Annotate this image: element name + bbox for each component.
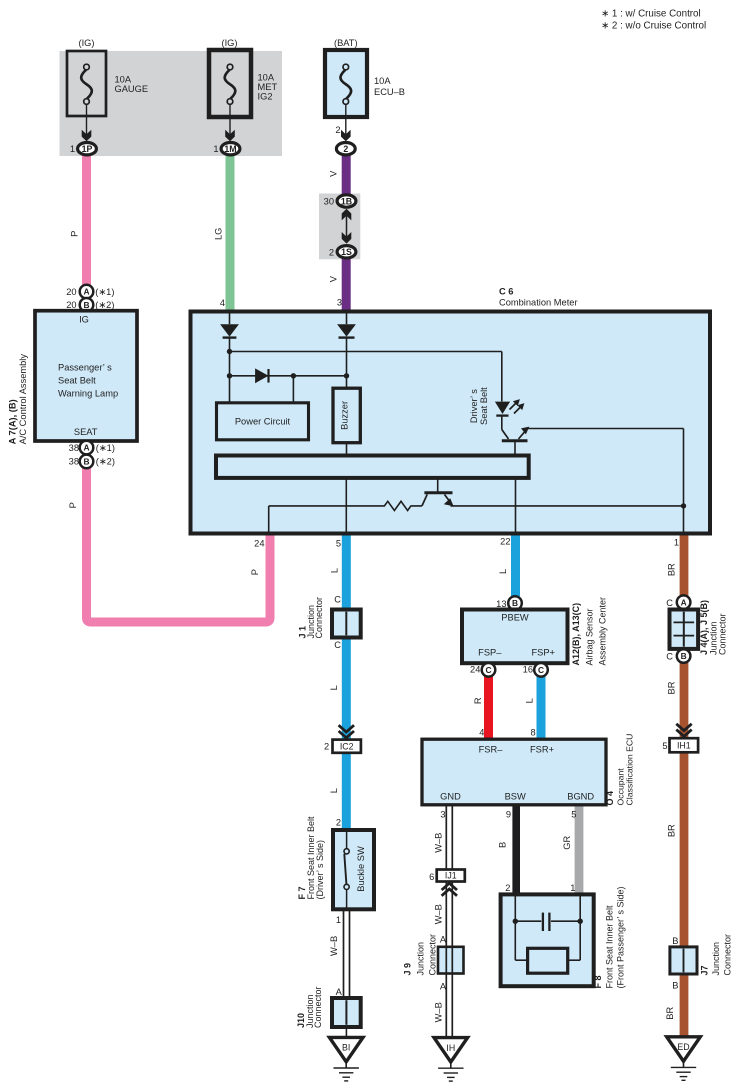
svg-text:5: 5 — [662, 741, 667, 751]
svg-text:PBEW: PBEW — [501, 613, 529, 623]
svg-text:4: 4 — [220, 298, 225, 308]
svg-text:(IG): (IG) — [221, 38, 237, 48]
svg-text:IG: IG — [79, 315, 89, 325]
svg-text:ED: ED — [677, 1042, 689, 1052]
svg-text:Combination Meter: Combination Meter — [499, 297, 578, 307]
svg-text:1: 1 — [336, 915, 341, 925]
svg-text:24: 24 — [470, 665, 480, 675]
svg-text:Junction: Junction — [711, 942, 721, 976]
svg-text:Seat Belt: Seat Belt — [479, 387, 489, 425]
svg-text:Junction: Junction — [415, 942, 425, 976]
svg-text:C: C — [334, 595, 341, 605]
svg-text:Power Circuit: Power Circuit — [235, 417, 291, 427]
svg-text:IJ1: IJ1 — [445, 871, 457, 881]
svg-text:C: C — [485, 665, 491, 675]
svg-text:Connector: Connector — [314, 597, 324, 639]
svg-text:(Driver’ s Side): (Driver’ s Side) — [315, 840, 325, 900]
svg-text:FSP–: FSP– — [478, 648, 502, 658]
svg-text:Connector: Connector — [718, 613, 728, 655]
svg-text:(∗1): (∗1) — [95, 287, 114, 297]
svg-text:W–B: W–B — [329, 936, 339, 956]
svg-text:L: L — [525, 698, 535, 703]
svg-text:BR: BR — [666, 563, 676, 576]
svg-text:1: 1 — [213, 144, 218, 154]
svg-text:A: A — [681, 597, 687, 607]
svg-text:A: A — [336, 987, 343, 997]
svg-text:1P: 1P — [82, 144, 93, 154]
svg-text:FSR–: FSR– — [479, 745, 504, 755]
svg-text:C: C — [334, 640, 341, 650]
svg-text:IG2: IG2 — [258, 92, 273, 102]
svg-text:B: B — [672, 980, 678, 990]
svg-text:3: 3 — [440, 810, 445, 820]
svg-text:2: 2 — [343, 144, 348, 154]
svg-text:L: L — [329, 788, 339, 793]
svg-text:MET: MET — [258, 82, 278, 92]
svg-text:10A: 10A — [374, 76, 391, 86]
svg-text:(∗2): (∗2) — [96, 457, 115, 467]
svg-text:24: 24 — [254, 538, 264, 548]
svg-text:5: 5 — [571, 809, 576, 819]
svg-text:A: A — [440, 935, 447, 945]
svg-text:GR: GR — [562, 836, 572, 850]
svg-text:L: L — [498, 569, 508, 574]
svg-text:FSR+: FSR+ — [530, 745, 554, 755]
svg-text:A: A — [83, 287, 89, 297]
svg-text:Driver’ s: Driver’ s — [469, 389, 479, 423]
svg-text:4: 4 — [479, 728, 484, 738]
svg-text:6: 6 — [429, 872, 434, 882]
svg-text:10A: 10A — [258, 73, 275, 83]
svg-text:Connector: Connector — [427, 934, 437, 976]
svg-text:B: B — [83, 457, 89, 467]
svg-text:V: V — [328, 170, 338, 177]
svg-text:B: B — [672, 936, 678, 946]
svg-text:W–B: W–B — [433, 1002, 443, 1022]
svg-text:L: L — [329, 685, 339, 690]
svg-text:2: 2 — [336, 818, 341, 828]
svg-text:O 4: O 4 — [605, 791, 615, 806]
svg-text:Connector: Connector — [723, 934, 733, 976]
svg-text:Buckle SW: Buckle SW — [356, 846, 366, 892]
svg-text:B: B — [497, 842, 507, 848]
svg-text:2: 2 — [329, 247, 334, 257]
svg-text:∗ 1 : w/ Cruise Control: ∗ 1 : w/ Cruise Control — [601, 9, 701, 20]
svg-text:P: P — [70, 231, 80, 237]
svg-text:22: 22 — [500, 537, 510, 547]
svg-text:BR: BR — [666, 824, 676, 837]
svg-text:P: P — [68, 502, 78, 508]
svg-text:L: L — [329, 568, 339, 573]
svg-text:2: 2 — [335, 125, 340, 135]
svg-text:IH: IH — [446, 1043, 455, 1053]
svg-text:P: P — [250, 569, 260, 575]
svg-text:3: 3 — [337, 298, 342, 308]
svg-text:BGND: BGND — [567, 792, 594, 802]
svg-text:Airbag Sensor: Airbag Sensor — [584, 608, 594, 665]
svg-text:BSW: BSW — [505, 792, 526, 802]
svg-text:C: C — [666, 652, 673, 662]
svg-text:W–B: W–B — [433, 904, 443, 924]
svg-text:ECU–B: ECU–B — [374, 87, 405, 97]
svg-text:(∗2): (∗2) — [95, 300, 114, 310]
svg-text:J7: J7 — [700, 965, 710, 975]
svg-text:A12(B), A13(C): A12(B), A13(C) — [571, 603, 581, 666]
svg-text:20: 20 — [66, 300, 76, 310]
svg-text:16: 16 — [523, 665, 533, 675]
svg-text:Assembly Center: Assembly Center — [597, 597, 607, 666]
svg-text:38: 38 — [69, 457, 79, 467]
svg-text:BI: BI — [342, 1043, 350, 1053]
svg-text:(BAT): (BAT) — [334, 38, 358, 48]
svg-text:2: 2 — [505, 883, 510, 893]
svg-text:GAUGE: GAUGE — [115, 84, 149, 94]
svg-text:SEAT: SEAT — [74, 427, 98, 437]
svg-text:IC2: IC2 — [340, 742, 354, 752]
svg-text:Connector: Connector — [313, 986, 323, 1028]
svg-text:(IG): (IG) — [78, 38, 94, 48]
svg-text:1: 1 — [570, 883, 575, 893]
svg-text:F 8: F 8 — [593, 975, 603, 988]
svg-text:A 7(A), (B): A 7(A), (B) — [7, 399, 17, 444]
svg-text:W–B: W–B — [433, 833, 443, 853]
svg-text:BR: BR — [665, 1007, 675, 1020]
svg-text:V: V — [328, 275, 338, 282]
svg-text:B: B — [83, 300, 89, 310]
svg-text:R: R — [473, 697, 483, 704]
svg-text:2: 2 — [324, 741, 329, 751]
svg-text:Front Seat Inner Belt: Front Seat Inner Belt — [605, 905, 615, 989]
svg-text:20: 20 — [66, 287, 76, 297]
svg-text:B: B — [681, 651, 687, 661]
svg-text:Warning Lamp: Warning Lamp — [58, 389, 118, 399]
svg-text:BR: BR — [666, 681, 676, 694]
svg-text:Seat Belt: Seat Belt — [58, 376, 96, 386]
svg-text:C: C — [666, 598, 673, 608]
svg-text:5: 5 — [336, 538, 341, 548]
svg-text:C 6: C 6 — [499, 286, 513, 296]
svg-text:FSP+: FSP+ — [531, 648, 555, 658]
svg-text:Passenger’ s: Passenger’ s — [58, 363, 112, 373]
svg-text:9: 9 — [506, 809, 511, 819]
svg-text:J 9: J 9 — [403, 963, 413, 976]
svg-text:A: A — [440, 981, 447, 991]
svg-text:A: A — [83, 443, 89, 453]
svg-text:1: 1 — [674, 537, 679, 547]
svg-text:30: 30 — [324, 197, 334, 207]
svg-text:8: 8 — [531, 728, 536, 738]
svg-text:B: B — [512, 598, 518, 608]
svg-text:1B: 1B — [341, 196, 352, 206]
svg-text:GND: GND — [440, 792, 461, 802]
svg-text:LG: LG — [214, 228, 224, 240]
svg-text:Buzzer: Buzzer — [339, 401, 349, 430]
svg-text:38: 38 — [69, 443, 79, 453]
svg-text:Classification ECU: Classification ECU — [625, 734, 635, 806]
svg-text:1: 1 — [70, 144, 75, 154]
svg-text:A/C Control Assembly: A/C Control Assembly — [18, 354, 28, 445]
svg-text:C: C — [538, 665, 544, 675]
svg-text:IH1: IH1 — [677, 741, 691, 751]
svg-text:(∗1): (∗1) — [96, 443, 115, 453]
svg-text:∗ 2 : w/o Cruise Control: ∗ 2 : w/o Cruise Control — [601, 21, 706, 32]
svg-text:1M: 1M — [224, 144, 236, 154]
svg-text:(Front Passenger’ s Side): (Front Passenger’ s Side) — [615, 886, 625, 988]
svg-text:1S: 1S — [341, 247, 352, 257]
svg-text:13: 13 — [496, 599, 506, 609]
